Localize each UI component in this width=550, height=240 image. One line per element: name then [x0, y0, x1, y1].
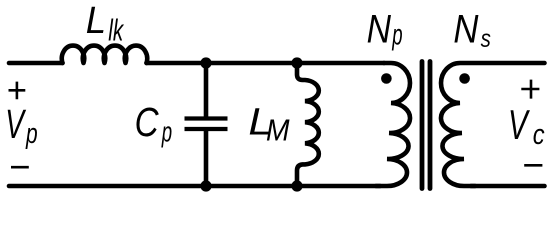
transformer core bar 2: [428, 62, 433, 189]
svg-text:p: p: [161, 116, 172, 148]
capacitor Cp bottom stub: [204, 131, 209, 186]
label Cp: [135, 98, 173, 148]
plus sign left: [9, 82, 26, 100]
svg-text:s: s: [481, 24, 492, 53]
wire bottom-left: [9, 184, 380, 189]
winding Ns secondary: [441, 63, 545, 186]
junction dot cap bottom: [200, 180, 211, 191]
label Vp: [5, 102, 37, 150]
svg-text:L: L: [86, 0, 106, 41]
svg-text:V: V: [5, 102, 26, 147]
svg-text:N: N: [367, 7, 392, 51]
capacitor Cp top stub: [204, 63, 209, 117]
winding Np primary: [376, 63, 410, 186]
label LM: [248, 100, 290, 148]
label Np: [367, 7, 403, 52]
polarity dot secondary: [459, 73, 470, 84]
minus sign right: [524, 164, 542, 167]
polarity dot primary: [381, 73, 392, 84]
label Vc: [508, 101, 545, 151]
svg-text:p: p: [25, 118, 38, 150]
svg-text:M: M: [266, 113, 290, 147]
plus sign right: [521, 80, 539, 99]
label L_lk: [86, 0, 125, 47]
svg-text:p: p: [392, 18, 403, 52]
capacitor Cp plates: [185, 119, 228, 130]
minus sign left: [11, 166, 29, 169]
transformer core bar 1: [420, 62, 425, 189]
svg-text:V: V: [508, 101, 530, 148]
wire top-left lead: [9, 61, 63, 66]
svg-text:C: C: [135, 98, 160, 144]
junction dot LM top: [291, 57, 302, 68]
junction dot LM bottom: [291, 180, 302, 191]
svg-text:N: N: [453, 6, 479, 51]
svg-text:c: c: [533, 118, 545, 151]
inductor L_M: [297, 63, 319, 186]
label Ns: [453, 6, 491, 52]
inductor L_lk: [62, 46, 147, 63]
wire top middle (L_lk to primary): [147, 61, 385, 66]
wire bottom-right: [471, 184, 545, 189]
svg-text:lk: lk: [108, 12, 124, 47]
junction dot cap top: [200, 57, 211, 68]
